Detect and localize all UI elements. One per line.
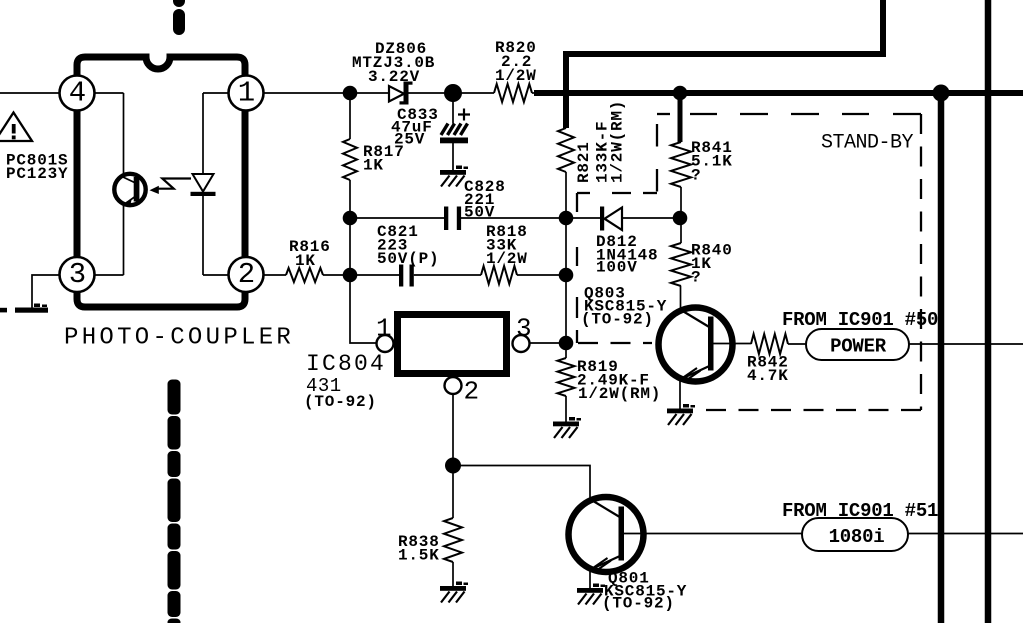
label D812 — [596, 233, 638, 251]
svg-text:1: 1 — [376, 314, 392, 344]
svg-text:1080i: 1080i — [829, 526, 885, 548]
stand-by box left — [576, 193, 578, 343]
wire R818 to R821 column — [517, 274, 566, 276]
light arrow from LED to transistor — [150, 179, 192, 195]
transistor Q803 — [659, 308, 733, 382]
wire pin2 to R816 — [264, 274, 287, 276]
svg-text:2: 2 — [464, 377, 480, 407]
wire Q803 emitter to ground — [679, 380, 681, 409]
label R821 rotated — [575, 141, 593, 183]
IC804 pin 3 — [513, 335, 530, 352]
resistor R818 — [481, 266, 517, 284]
label 2.2 — [501, 53, 532, 71]
wire C833 top lead — [452, 93, 454, 124]
ground below R819 — [553, 417, 581, 438]
wire R817 junction to C828 — [350, 217, 444, 219]
node bus at right vertical — [933, 85, 950, 102]
label Q801 — [608, 570, 650, 588]
wire C821 to R818 — [414, 274, 481, 276]
resistor R816 — [286, 268, 323, 282]
label MTZJ3.0B — [352, 54, 435, 72]
label 431 — [306, 375, 342, 397]
node at pin2 branch — [445, 458, 461, 474]
wire R840 to Q803 base — [680, 286, 682, 309]
svg-text:PC123Y: PC123Y — [6, 165, 68, 183]
ground below Q803 — [667, 404, 695, 425]
wire R817 top — [349, 93, 351, 139]
IC804 body — [398, 315, 507, 374]
wire Q801 emitter to ground — [589, 570, 591, 588]
phototransistor of coupler — [114, 174, 145, 206]
svg-text:4: 4 — [69, 77, 86, 110]
label ? of R840 — [691, 269, 701, 287]
svg-text:3: 3 — [69, 258, 86, 291]
label 33K — [486, 237, 517, 255]
label R818 — [486, 223, 528, 241]
svg-text:2: 2 — [238, 258, 255, 291]
resistor R821 — [558, 128, 574, 172]
label FROM IC901 #50 — [782, 309, 938, 331]
wire to IC804 pin3 node — [565, 275, 567, 343]
wire pin3 to ground — [32, 275, 60, 308]
zener diode DZ806 — [389, 82, 413, 105]
label 133K-F rotated — [594, 121, 612, 183]
label 4.7K — [747, 367, 789, 385]
label R841 — [691, 139, 733, 157]
node row275 left — [343, 268, 358, 283]
wire R842 to POWER — [788, 343, 806, 345]
capacitor C833 plus sign — [458, 109, 470, 121]
label 1/2W(RM) rotated — [609, 100, 627, 183]
stand-by box step horizontal — [577, 192, 657, 194]
thick dashed line bottom — [168, 380, 181, 623]
stand-by box top — [657, 113, 921, 115]
wire POWER to right edge — [909, 343, 1023, 345]
label 50V of C828 — [464, 203, 495, 221]
stand-by box step vertical — [656, 124, 658, 192]
label (TO-92) of Q803 — [581, 311, 654, 329]
resistor R840 — [671, 243, 691, 286]
label C833 — [397, 106, 439, 124]
pin 4 — [60, 76, 95, 111]
svg-text:R821: R821 — [575, 141, 593, 183]
warning symbol — [0, 113, 32, 142]
label Q803 — [584, 285, 626, 303]
label IC804 — [306, 351, 386, 377]
ground at pin 3 — [0, 304, 48, 313]
svg-text:1/2W: 1/2W — [486, 250, 528, 268]
label pin 2 — [464, 377, 480, 407]
diode D812 — [600, 207, 622, 231]
LED of coupler — [191, 174, 216, 196]
svg-text:100V: 100V — [596, 259, 638, 277]
label 1K of R817 — [363, 157, 384, 175]
node bus at R841 branch — [673, 86, 688, 101]
stand-by box bottom-left — [578, 342, 652, 344]
capacitor C828 — [444, 207, 461, 231]
ground below Q801 — [577, 584, 605, 605]
label 5.1K — [691, 153, 733, 171]
label KSC815-Y of Q801 — [604, 583, 687, 601]
label KSC815-Y of Q803 — [584, 298, 667, 316]
label FROM IC901 #51 — [782, 500, 938, 522]
IC804 pin 2 — [445, 377, 462, 394]
label 1K of R840 — [691, 255, 712, 273]
svg-text:IC804: IC804 — [306, 351, 386, 377]
pin 3 — [60, 257, 95, 292]
node at R840 top — [673, 211, 688, 226]
svg-text:POWER: POWER — [830, 336, 887, 358]
svg-text:1/2W: 1/2W — [495, 67, 537, 85]
label 221 of C828 — [464, 191, 495, 209]
label PC123Y — [6, 165, 68, 183]
label R819 — [577, 358, 619, 376]
capacitor C833 — [440, 124, 468, 144]
label DZ806 — [375, 40, 427, 58]
label R840 — [691, 242, 733, 260]
wire R838 to ground — [452, 562, 454, 586]
stand-by box bottom — [700, 409, 921, 411]
label (TO-92) of IC804 — [304, 393, 377, 411]
label pin 1 — [376, 314, 392, 344]
svg-text:?: ? — [691, 167, 701, 185]
node row218 left — [343, 211, 358, 226]
wire Q803 collector to R842 — [714, 343, 752, 345]
resistor R817 — [343, 139, 357, 180]
wire LED anode vertical — [202, 93, 204, 174]
label pin 3 — [516, 314, 532, 344]
resistor R841 — [671, 142, 691, 187]
label R816 — [289, 238, 331, 256]
node row275 right — [559, 268, 574, 283]
wire inner emitter vertical — [123, 205, 125, 276]
wire DZ806 to R820 — [409, 92, 495, 94]
label 1/2W of R818 — [486, 250, 528, 268]
wire node to R840 — [680, 218, 682, 243]
pin 2 — [229, 257, 264, 292]
svg-text:FROM IC901 #50: FROM IC901 #50 — [782, 309, 938, 331]
resistor R819 — [558, 358, 575, 396]
label 3.22V — [368, 68, 420, 86]
label 1/2W of R820 — [495, 67, 537, 85]
svg-text:3.22V: 3.22V — [368, 68, 420, 86]
wire R821 bottom — [565, 172, 567, 218]
wire R816 to C821 — [323, 274, 399, 276]
svg-text:?: ? — [691, 269, 701, 287]
label ? of R841 — [691, 167, 701, 185]
label 1K of R816 — [295, 252, 316, 270]
net flag POWER — [806, 329, 909, 360]
svg-text:(TO-92): (TO-92) — [602, 595, 675, 613]
node row218 at R821 — [559, 211, 574, 226]
svg-text:50V(P): 50V(P) — [377, 250, 439, 268]
stand-by box right — [920, 114, 922, 410]
label STAND-BY — [821, 132, 914, 155]
label (TO-92) of Q801 — [602, 595, 675, 613]
label 100V — [596, 259, 638, 277]
svg-text:(TO-92): (TO-92) — [581, 311, 654, 329]
wire pin1 to DZ806 — [264, 92, 390, 94]
svg-text:1.5K: 1.5K — [398, 547, 440, 565]
ground below R838 — [440, 582, 468, 603]
label R820 — [495, 39, 537, 57]
capacitor C821 — [399, 265, 414, 287]
label 50V(P) — [377, 250, 439, 268]
wire 1080i to right edge — [908, 533, 1023, 535]
wire R819 top — [565, 343, 567, 358]
IC804 pin 1 — [377, 335, 394, 352]
svg-text:1: 1 — [238, 77, 255, 110]
transistor Q801 — [569, 497, 644, 572]
wire R821 node down — [565, 218, 567, 275]
svg-text:STAND-BY: STAND-BY — [821, 132, 914, 155]
wire LED cathode to pin2 — [203, 274, 229, 276]
thick bus wire y=93 — [534, 90, 1023, 96]
wire D812 to R840 column — [622, 217, 680, 219]
node at C833 top — [444, 84, 462, 102]
net flag 1080i — [802, 518, 908, 551]
label R838 — [398, 533, 440, 551]
svg-text:3: 3 — [516, 314, 532, 344]
thick feed from top — [566, 0, 883, 128]
svg-text:25V: 25V — [394, 131, 425, 149]
wire pin2 down — [452, 394, 454, 518]
wire inner collector vertical — [123, 93, 125, 177]
wire C833 to ground — [452, 143, 454, 170]
pin 1 — [229, 76, 264, 111]
wire R817 bottom to IC804 pin1 branch — [350, 180, 377, 343]
svg-text:4.7K: 4.7K — [747, 367, 789, 385]
node at R817 top — [343, 86, 358, 101]
photo-coupler U-PC801 body — [77, 57, 245, 307]
wire pin3 to R819 node — [529, 342, 566, 344]
thick vertical bus x=988 — [985, 0, 992, 623]
label R817 — [363, 143, 405, 161]
wire R841 to node — [680, 187, 682, 218]
svg-text:1K: 1K — [295, 252, 316, 270]
label 1N4148 — [596, 247, 658, 265]
wire R820 to thick bus — [532, 92, 537, 94]
node at R819 top — [559, 336, 574, 351]
label PHOTO-COUPLER — [64, 325, 294, 352]
wire pin2 node to Q801 base — [453, 466, 590, 502]
wire R819 to ground — [565, 396, 567, 422]
resistor R842 — [751, 334, 788, 354]
label 1.5K — [398, 547, 440, 565]
wire LED cathode vertical — [202, 196, 204, 275]
label R842 — [747, 354, 789, 372]
wire C828 to D812 — [461, 217, 600, 219]
svg-text:PHOTO-COUPLER: PHOTO-COUPLER — [64, 325, 294, 352]
wire pin1 to LED anode — [203, 92, 229, 94]
label 223 — [377, 237, 408, 255]
wire pin4 to inner collector line — [95, 92, 124, 94]
svg-text:1K: 1K — [363, 157, 384, 175]
thick dashed line top — [173, 0, 185, 35]
label 2.49K-F — [577, 372, 650, 390]
thick stub to R841 — [678, 93, 683, 142]
wire left input to pin 4 — [0, 92, 60, 94]
svg-text:1/2W(RM): 1/2W(RM) — [578, 385, 661, 403]
resistor R820 — [494, 84, 532, 102]
wire inner emitter to pin3 — [95, 274, 124, 276]
label PC801S — [6, 152, 68, 170]
resistor R838 — [444, 518, 462, 562]
thick vertical bus x=941 — [938, 93, 945, 623]
label 1/2W(RM) — [578, 385, 661, 403]
wire Q801 collector to 1080i — [624, 533, 803, 535]
label C821 — [377, 223, 419, 241]
label 25V — [394, 131, 425, 149]
label 47uF — [391, 119, 433, 137]
label C828 — [464, 178, 506, 196]
svg-text:(TO-92): (TO-92) — [304, 393, 377, 411]
ground below C833 — [440, 166, 468, 187]
svg-text:1/2W(RM): 1/2W(RM) — [609, 100, 627, 183]
